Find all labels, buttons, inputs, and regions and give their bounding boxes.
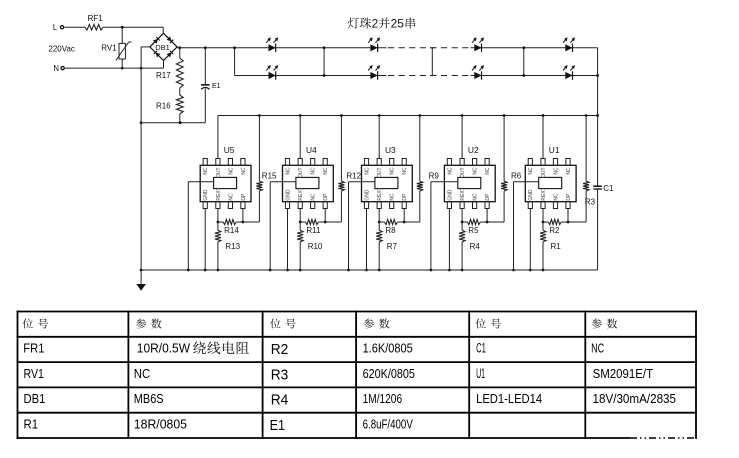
svg-text:GND: GND xyxy=(528,189,534,201)
svg-text:NC: NC xyxy=(528,167,534,175)
svg-text:NC: NC xyxy=(591,341,604,356)
svg-text:18V/30mA/2835: 18V/30mA/2835 xyxy=(593,391,677,406)
svg-text:NC: NC xyxy=(311,167,317,175)
svg-text:RV1: RV1 xyxy=(101,44,117,53)
svg-text:MB6S: MB6S xyxy=(134,391,164,406)
svg-text:REXT: REXT xyxy=(298,187,304,200)
svg-text:DP: DP xyxy=(485,193,491,201)
svg-text:1.6K/0805: 1.6K/0805 xyxy=(363,341,413,356)
svg-text:LED1-LED14: LED1-LED14 xyxy=(476,391,542,406)
svg-text:R2: R2 xyxy=(549,226,560,235)
svg-text:NC: NC xyxy=(390,193,396,201)
svg-text:NC: NC xyxy=(473,167,479,175)
svg-text:FR1: FR1 xyxy=(23,341,44,356)
svg-text:NC: NC xyxy=(553,193,559,201)
svg-text:R12: R12 xyxy=(346,172,361,181)
svg-text:R4: R4 xyxy=(470,242,481,251)
svg-text:C1: C1 xyxy=(476,341,486,356)
svg-text:R1: R1 xyxy=(551,242,562,251)
svg-text:NC: NC xyxy=(485,167,491,175)
svg-text:REXT: REXT xyxy=(216,187,222,200)
svg-text:U2: U2 xyxy=(468,145,479,155)
svg-text:L: L xyxy=(53,23,58,32)
svg-text:RF1: RF1 xyxy=(88,14,104,23)
svg-text:NC: NC xyxy=(228,193,234,201)
svg-text:DB1: DB1 xyxy=(155,43,170,52)
svg-text:NC: NC xyxy=(390,167,396,175)
svg-text:GND: GND xyxy=(447,189,453,201)
svg-text:N: N xyxy=(53,64,59,73)
svg-text:SM2091E/T: SM2091E/T xyxy=(593,366,654,381)
svg-text:1M/1206: 1M/1206 xyxy=(363,391,403,406)
svg-text:620K/0805: 620K/0805 xyxy=(363,366,415,381)
svg-text:U3: U3 xyxy=(385,145,396,155)
svg-text:C1: C1 xyxy=(603,184,614,193)
svg-text:R1: R1 xyxy=(24,417,39,432)
svg-text:DB1: DB1 xyxy=(24,391,46,406)
svg-text:NC: NC xyxy=(134,366,151,381)
svg-text:NC: NC xyxy=(364,167,370,175)
svg-text:R17: R17 xyxy=(156,71,171,80)
svg-text:R8: R8 xyxy=(385,226,396,235)
svg-text:R13: R13 xyxy=(225,242,240,251)
svg-text:GND: GND xyxy=(364,189,370,201)
svg-text:U5: U5 xyxy=(224,145,235,155)
svg-text:REXT: REXT xyxy=(541,187,547,200)
svg-text:R3: R3 xyxy=(271,367,289,383)
svg-text:R7: R7 xyxy=(387,242,398,251)
svg-text:DP: DP xyxy=(402,193,408,201)
svg-text:RV1: RV1 xyxy=(24,366,44,381)
svg-text:NC: NC xyxy=(311,193,317,201)
svg-text:6.8uF/400V: 6.8uF/400V xyxy=(363,417,413,432)
svg-text:DP: DP xyxy=(323,193,329,201)
svg-text:2: 2 xyxy=(372,17,379,31)
svg-text:R10: R10 xyxy=(308,242,323,251)
svg-text:GND: GND xyxy=(285,189,291,201)
svg-text:R2: R2 xyxy=(271,342,289,358)
svg-text:NC: NC xyxy=(566,167,572,175)
svg-text:REXT: REXT xyxy=(377,187,383,200)
svg-text:REXT: REXT xyxy=(460,187,466,200)
svg-text:NC: NC xyxy=(447,167,453,175)
svg-text:R9: R9 xyxy=(429,172,440,181)
svg-text:R15: R15 xyxy=(262,172,277,181)
svg-text:OUT: OUT xyxy=(460,167,466,178)
svg-text:U1: U1 xyxy=(549,145,560,155)
svg-text:25: 25 xyxy=(391,17,405,31)
svg-text:10R/0.5W: 10R/0.5W xyxy=(137,341,191,356)
svg-text:U1: U1 xyxy=(476,366,485,381)
svg-text:OUT: OUT xyxy=(377,167,383,178)
svg-text:NC: NC xyxy=(553,167,559,175)
svg-text:DP: DP xyxy=(241,193,247,201)
svg-text:NC: NC xyxy=(402,167,408,175)
svg-text:NC: NC xyxy=(241,167,247,175)
svg-text:NC: NC xyxy=(228,167,234,175)
svg-text:DP: DP xyxy=(566,193,572,201)
svg-text:220Vac: 220Vac xyxy=(48,44,75,53)
svg-text:R5: R5 xyxy=(468,226,479,235)
svg-text:OUT: OUT xyxy=(216,167,222,178)
svg-text:NC: NC xyxy=(323,167,329,175)
svg-text:NC: NC xyxy=(203,167,209,175)
svg-text:NC: NC xyxy=(473,193,479,201)
svg-text:U4: U4 xyxy=(306,145,317,155)
svg-text:R3: R3 xyxy=(585,198,596,207)
svg-text:OUT: OUT xyxy=(541,167,547,178)
svg-text:E1: E1 xyxy=(212,83,221,90)
svg-text:R6: R6 xyxy=(511,172,522,181)
svg-text:GND: GND xyxy=(203,189,209,201)
svg-text:NC: NC xyxy=(285,167,291,175)
svg-text:E1: E1 xyxy=(270,418,286,434)
svg-text:R4: R4 xyxy=(271,393,289,409)
svg-text:OUT: OUT xyxy=(298,167,304,178)
svg-text:R14: R14 xyxy=(224,226,239,235)
svg-text:R11: R11 xyxy=(306,226,321,235)
svg-text:18R/0805: 18R/0805 xyxy=(134,417,187,432)
svg-text:R16: R16 xyxy=(156,102,171,111)
